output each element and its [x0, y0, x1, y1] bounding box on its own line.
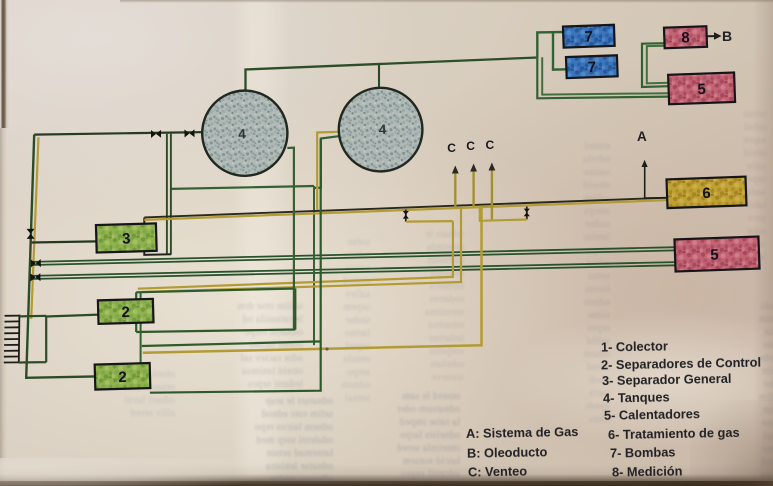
- yellow return bus upper pair from separator 2a area to vent header: [138, 221, 453, 288]
- svg-text:7: 7: [587, 59, 596, 76]
- valve on left riser: [27, 229, 35, 239]
- wire: yellow companion of left riser: [31, 137, 38, 319]
- ink speck: [325, 347, 328, 350]
- separator 2a recycle loop to tank 1: [287, 148, 294, 330]
- wire: feed to pump 7 lower: [553, 32, 567, 69]
- ghost text blocks (print-through from reverse page): [55, 368, 175, 420]
- bracket around separator 3 to gas bus: [144, 218, 171, 255]
- node label A: [637, 129, 647, 144]
- collector link loop to separator 2a: [19, 315, 99, 363]
- svg-text:4: 4: [379, 122, 387, 137]
- wire: tank1 to tank2 transfer line: [171, 186, 314, 189]
- wire: feed to pump 7 upper: [537, 32, 564, 58]
- svg-text:2: 2: [118, 369, 127, 386]
- vent arrow C3: [489, 163, 496, 220]
- tank 4 (left): [201, 89, 289, 177]
- wire: arrow A from treatment 6: [642, 160, 668, 198]
- valve on tank1 inlet (left): [151, 130, 161, 138]
- node labels C C C: [447, 141, 456, 155]
- legend column left: [465, 424, 578, 441]
- valve on tank1 inlet (right): [184, 129, 194, 137]
- svg-text:8: 8: [681, 29, 690, 46]
- svg-text:2: 2: [121, 304, 130, 321]
- valve on bus 1: [31, 259, 41, 267]
- valve on bus 2: [30, 273, 40, 281]
- wire: riser to separator general 3: [32, 241, 97, 242]
- vent stub valve left on gas bus: [405, 210, 407, 222]
- wire: green bus 1 to heater 5 (double): [31, 247, 676, 262]
- tank 4 (right): [338, 87, 424, 173]
- wire: tank top manifold to pumps: [246, 58, 538, 94]
- legend column right: [600, 338, 667, 354]
- separator 2b recycle loop to tank 2: [142, 139, 321, 393]
- pump 7 (lower): [566, 55, 618, 78]
- node label B: [722, 28, 732, 44]
- pump 7 (upper): [563, 25, 615, 48]
- svg-text:6: 6: [702, 185, 711, 202]
- separator general 3: [96, 223, 157, 252]
- svg-text:5: 5: [697, 81, 706, 98]
- meter 8: [664, 26, 707, 48]
- wire: manifold down to heater 5 (double line): [537, 58, 669, 99]
- wire: left main riser down to separator 2b: [26, 135, 95, 378]
- right edge darkening: [753, 0, 773, 486]
- yellow return bus lower from separator 2b to vent riser: [143, 207, 482, 353]
- control separator 2 (lower): [95, 363, 151, 390]
- wire: heater 5 to meter 8 (double line): [642, 43, 669, 87]
- svg-text:4: 4: [238, 126, 246, 141]
- control separator 2 (upper): [98, 299, 154, 324]
- wire: separator 3 outlet risers to tank line: [166, 134, 168, 255]
- bottom dark band: [0, 464, 773, 486]
- vent arrow C2: [470, 164, 477, 207]
- svg-text:5: 5: [710, 246, 719, 263]
- yellow vent header right: [480, 208, 527, 221]
- wire: tank2 yellow inlet and drop to gas bus: [317, 132, 339, 210]
- svg-text:3: 3: [122, 230, 131, 247]
- wire: arrow B from meter 8: [707, 32, 722, 39]
- gas bus (black over yellow) to treatment 6: [144, 200, 667, 220]
- wire: tank2 left green drop: [314, 136, 339, 188]
- wire: transfer drop to lower yellow bus: [313, 186, 315, 345]
- left page edge: [0, 0, 9, 128]
- vent arrow C1: [452, 166, 459, 208]
- vertical link between separator loops: [140, 292, 142, 364]
- treatment 6: [667, 177, 747, 208]
- collector comb symbol: [4, 315, 20, 363]
- svg-text:7: 7: [584, 28, 593, 45]
- wire: well line into tank 1: [34, 132, 203, 135]
- heater 5 (top): [668, 72, 735, 104]
- yellow vent header left: [406, 220, 453, 223]
- wire: green bus 2 to heater 5 (double): [31, 262, 676, 276]
- vent stub valve right on gas bus: [526, 207, 528, 220]
- heater 5 (bottom): [674, 237, 759, 272]
- wire: tank 2 riser: [378, 64, 380, 89]
